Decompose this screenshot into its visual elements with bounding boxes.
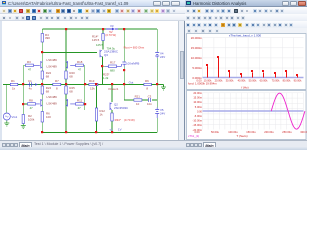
bottom chart x labels: [194, 130, 310, 134]
resistor R2: [22, 115, 24, 124]
wire gate row lower: [23, 103, 84, 105]
svg-text:R17: R17: [110, 60, 116, 64]
svg-text:LSK489: LSK489: [47, 65, 58, 69]
node junction (102.5,66.3): [101, 65, 103, 67]
svg-text:VG1: VG1: [11, 115, 17, 119]
resistor R20: [65, 71, 67, 79]
resistor R6: [144, 83, 152, 85]
svg-text:200.00u: 200.00u: [264, 130, 274, 134]
svg-text:(0.70 W): (0.70 W): [124, 118, 135, 122]
svg-text:-10.00m: -10.00m: [192, 119, 202, 123]
battery V3: [106, 28, 118, 30]
svg-text:68: 68: [46, 75, 50, 79]
svg-text:Out: Out: [129, 80, 134, 84]
battery V4: [155, 52, 159, 59]
svg-text:15.00m: 15.00m: [193, 96, 202, 100]
svg-text:100k: 100k: [28, 118, 35, 122]
node junction (23.3,84.5): [22, 83, 24, 85]
wire input column x23: [22, 65, 24, 114]
node junction (124.2,29): [123, 28, 125, 30]
svg-text:5.000m: 5.000m: [192, 66, 202, 70]
node junction (157.2,84.5): [156, 83, 158, 85]
resistor R4: [41, 34, 43, 43]
resistor R16: [41, 112, 43, 123]
node junction (124.2,70.3): [123, 69, 125, 71]
svg-text:47: 47: [28, 67, 32, 71]
svg-text:68: 68: [69, 75, 73, 79]
resistor R8: [28, 103, 36, 105]
resistor R24: [41, 86, 43, 94]
svg-text:20.000m: 20.000m: [191, 36, 203, 40]
resistor R14: [102, 34, 104, 41]
wire output column: [111, 85, 113, 133]
svg-text:R13: R13: [89, 79, 95, 83]
node junction (84.7,103.9): [84, 103, 86, 105]
node junction (96.5,132.5): [95, 131, 97, 133]
svg-text:v1: v1: [110, 128, 113, 132]
svg-text:60.00k: 60.00k: [260, 78, 268, 82]
svg-text:50.00u: 50.00u: [211, 130, 219, 134]
svg-text:-15.00m: -15.00m: [192, 123, 202, 127]
resistor R13: [89, 83, 98, 85]
wire column x42: [41, 29, 43, 133]
svg-text:fund: 1.0000k 19.994m: fund: 1.0000k 19.994m: [188, 82, 217, 86]
battery V5: [155, 108, 159, 119]
svg-text:100.00u: 100.00u: [228, 130, 238, 134]
top chart baseline: [203, 77, 304, 79]
resistor R12: [95, 108, 97, 121]
wire gate row upper: [23, 64, 84, 66]
svg-text:R34*: R34*: [115, 118, 122, 122]
wire q3 column: [102, 29, 105, 85]
node junction (23.3,103.9): [22, 103, 24, 105]
node junction (66,84.5): [65, 83, 67, 85]
svg-text:LSK489: LSK489: [47, 58, 58, 62]
source V1: [3, 113, 10, 120]
wire zobel to rail: [152, 99, 157, 101]
svg-text:24V: 24V: [160, 111, 165, 115]
svg-text:10n: 10n: [147, 102, 152, 106]
svg-text:70.00k: 70.00k: [272, 78, 280, 82]
resistor R7: [53, 83, 61, 85]
transistor J2 LSK489: [66, 61, 68, 69]
svg-text:250.00u: 250.00u: [282, 130, 292, 134]
svg-text:1.2k: 1.2k: [103, 76, 109, 80]
svg-text:10: 10: [136, 102, 140, 106]
wire feedback column x84.7: [84, 65, 86, 110]
resistor R3: [26, 64, 34, 66]
wire rail2: [42, 52, 97, 54]
svg-text:R1: R1: [11, 79, 15, 83]
wire R17 branch: [103, 65, 106, 67]
svg-text:1k: 1k: [12, 87, 16, 91]
node junction (66,29): [65, 28, 67, 30]
svg-text:47: 47: [78, 106, 82, 110]
svg-text:Q3: Q3: [104, 53, 108, 57]
resistor R17: [109, 65, 117, 68]
capacitor C3: [148, 98, 151, 102]
transistor Q3: [100, 50, 102, 58]
svg-text:30.00k: 30.00k: [226, 78, 234, 82]
svg-text:680: 680: [110, 69, 115, 73]
svg-text:1k: 1k: [100, 113, 104, 117]
svg-text:xTha fast_baud_v 1.000: xTha fast_baud_v 1.000: [229, 34, 262, 38]
svg-text:4u: 4u: [29, 87, 33, 91]
svg-text:-5.00m: -5.00m: [194, 114, 202, 118]
wire right rail: [156, 29, 158, 133]
node junction (96.5,84.5): [95, 83, 97, 85]
transistor J1 LSK489: [41, 61, 43, 69]
svg-text:Rout = 600 Ohm: Rout = 600 Ohm: [124, 45, 145, 49]
wire column x96: [96, 85, 98, 133]
svg-text:f (Hz): f (Hz): [241, 85, 248, 89]
svg-text:90.00k: 90.00k: [294, 78, 302, 82]
svg-text:LSK489: LSK489: [47, 102, 58, 106]
svg-text:50.00k: 50.00k: [249, 78, 257, 82]
resistor R19: [76, 103, 84, 105]
transistor J3 LSK489: [41, 99, 43, 107]
node junction (42.3,84.5): [41, 83, 43, 85]
svg-text:10.000m: 10.000m: [191, 56, 203, 60]
svg-text:100n/MFB: 100n/MFB: [126, 61, 139, 65]
resistor R1: [10, 83, 17, 85]
wire bottom rail: [41, 132, 157, 134]
svg-text:1V: 1V: [118, 128, 122, 132]
wire column x66: [65, 29, 67, 133]
svg-text:300.00u: 300.00u: [300, 130, 307, 134]
top chart gridlines: [203, 38, 304, 78]
node junction (66,132.5): [65, 131, 67, 133]
resistor R25: [65, 86, 67, 94]
svg-text:8: 8: [146, 87, 148, 91]
node junction (103,29): [102, 28, 104, 30]
svg-text:704.5u: 704.5u: [107, 47, 116, 51]
svg-text:47: 47: [78, 67, 82, 71]
svg-text:(0.70 W): (0.70 W): [105, 33, 116, 37]
bottom chart panel: [187, 91, 307, 140]
svg-text:R3: R3: [27, 60, 31, 64]
svg-text:R6: R6: [145, 79, 149, 83]
wire mid rail: [3, 84, 157, 86]
svg-text:40.00k: 40.00k: [238, 78, 246, 82]
svg-text:T (Secs): T (Secs): [236, 134, 247, 138]
svg-text:R18: R18: [77, 60, 83, 64]
svg-text:15.000m: 15.000m: [191, 46, 203, 50]
svg-text:100: 100: [46, 115, 51, 119]
wire column x124: [123, 29, 125, 100]
svg-text:68: 68: [69, 90, 73, 94]
svg-text:R8: R8: [29, 99, 33, 103]
top chart y labels: [191, 36, 203, 80]
resistor R18: [76, 64, 84, 66]
svg-text:5.00m: 5.00m: [195, 105, 202, 109]
zero line: [203, 110, 304, 112]
svg-text:R11: R11: [77, 99, 82, 103]
signal sine: [271, 93, 305, 129]
svg-text:10.00m: 10.00m: [193, 100, 202, 104]
svg-text:390: 390: [45, 36, 50, 40]
svg-text:R7: R7: [55, 79, 59, 83]
svg-text:47: 47: [30, 106, 34, 110]
ground V1: [4, 121, 9, 127]
wire gnd stub right: [157, 85, 163, 88]
resistor R21: [134, 99, 142, 101]
capacitor C4: [122, 62, 126, 67]
svg-text:15k: 15k: [90, 87, 95, 91]
top chart x labels: [196, 78, 302, 82]
resistor R35: [111, 113, 113, 121]
ground right: [161, 87, 166, 90]
wire input drop: [6, 85, 8, 113]
harmonic stems: [206, 56, 298, 78]
bottom chart y labels: [192, 91, 202, 132]
svg-text:125.5: 125.5: [96, 43, 103, 47]
transistor Q2: [110, 103, 112, 111]
svg-text:20.00m: 20.00m: [193, 91, 202, 95]
node junction (84.7,84.5): [84, 83, 86, 85]
svg-text:0.00: 0.00: [197, 109, 203, 113]
wire zobel branch: [124, 99, 148, 101]
wire R17 lead blue: [105, 64, 122, 66]
wire top rail right: [118, 28, 157, 30]
transistor J4 LSK489: [66, 99, 68, 107]
svg-text:LSK489: LSK489: [47, 95, 58, 99]
top chart panel: [187, 34, 307, 90]
svg-text:2SC3503C: 2SC3503C: [114, 106, 128, 110]
bottom chart gridlines: [203, 93, 304, 130]
node junction (42.3,132.5): [41, 131, 43, 133]
resistor R22: [41, 71, 43, 79]
svg-text:C1: C1: [28, 79, 32, 83]
node junction (112,132.5): [111, 131, 113, 133]
node junction (124.2,84.5): [123, 83, 125, 85]
ground R2: [21, 124, 26, 129]
wire gate leads blue: [34, 65, 76, 104]
input arrow: [35, 83, 38, 85]
svg-text:80.00k: 80.00k: [283, 78, 291, 82]
svg-text:Power1: Power1: [109, 87, 119, 91]
node junction (112,84.5): [111, 83, 113, 85]
svg-text:150.00u: 150.00u: [246, 130, 256, 134]
node junction (42.3,52.5): [41, 51, 43, 53]
capacitor C1: [27, 82, 34, 87]
svg-text:125.5: 125.5: [92, 38, 100, 42]
wire top rail left: [42, 28, 106, 30]
svg-text:R21: R21: [135, 95, 141, 99]
svg-text:24V: 24V: [160, 55, 165, 59]
svg-text:xTh1_(1): xTh1_(1): [188, 134, 199, 138]
svg-text:68: 68: [46, 90, 50, 94]
svg-text:C3: C3: [148, 95, 152, 99]
svg-text:8: 8: [56, 87, 58, 91]
svg-text:V3: V3: [110, 24, 114, 28]
